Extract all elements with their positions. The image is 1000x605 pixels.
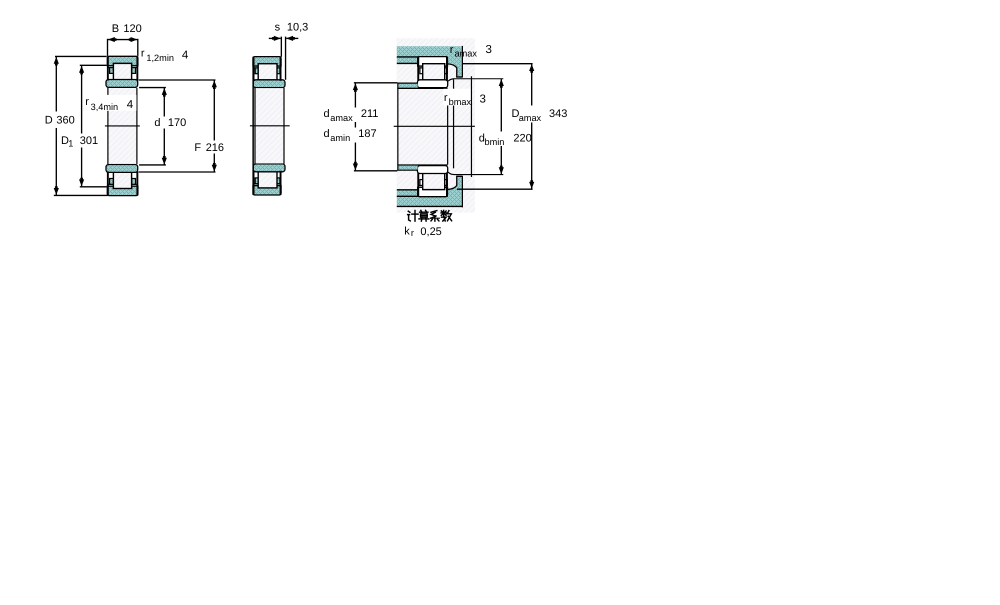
middle-view roller (upper) [258,64,277,80]
dimension s 10,3 [269,21,309,79]
middle-view cage bar left (lower) [255,178,258,184]
label r_amax with value 3 [450,44,492,59]
left-view outer ring band (lower) [107,186,138,195]
svg-text:170: 170 [168,117,186,129]
left-view cage bar left (lower) [110,179,114,185]
mounting-view outer ring band (upper) [418,57,448,66]
svg-text:D: D [45,115,53,127]
svg-text:amin: amin [330,133,350,143]
shaft end face [447,106,449,165]
left-view side face lines (upper) [107,56,109,80]
left-view outer ring band (upper) [107,56,138,65]
middle-view inner ring band (lower) [253,164,285,172]
mounting view centerline [394,125,475,127]
dimension d_bmin 220 [479,79,532,174]
svg-text:216: 216 [206,142,224,154]
svg-text:3: 3 [480,94,486,106]
svg-text:0,25: 0,25 [420,226,441,238]
mounting-view flange gap lines (lower) [418,186,423,188]
middle-view flange gap lines (upper) [254,65,259,67]
mounting-view cage bar right (lower) [445,180,448,186]
svg-text:k: k [404,226,410,238]
left-view flange gap lines (lower) [108,185,113,187]
left-view cage bar right (upper) [132,68,136,74]
svg-text:360: 360 [56,115,74,127]
svg-text:301: 301 [80,135,98,147]
dimension B 120 [108,23,142,56]
svg-text:s: s [275,21,281,33]
shaft seat lines [397,87,447,89]
left-view flange gap lines (upper) [108,65,113,67]
svg-text:4: 4 [127,99,134,111]
svg-text:d: d [324,128,330,140]
mounting view bearing [417,57,447,197]
svg-text:10,3: 10,3 [287,22,308,34]
svg-text:B: B [112,23,119,35]
left-view inner ring band (lower) [106,165,138,173]
mounting-view cage bar left (upper) [420,68,423,74]
svg-text:F: F [194,142,201,154]
middle view outer-edge silhouette line [252,57,254,195]
label r_bmax with value 3 [443,89,486,107]
svg-text:1,2min: 1,2min [146,53,174,63]
left-view roller (lower) [113,172,131,188]
housing bottom [397,176,463,207]
svg-text:3,4min: 3,4min [91,102,119,112]
mounting-view side face lines (upper) [417,57,419,81]
svg-text:r: r [85,96,89,108]
middle view bore column [256,88,284,163]
housing top [397,46,463,77]
left-view inner ring band (upper) [106,80,138,88]
dimension D 360 [45,56,108,195]
svg-text:bmax: bmax [449,97,472,107]
middle-view side face lines (upper) [253,57,255,81]
svg-text:amax: amax [519,113,542,123]
shaft shoulder strips [397,83,447,171]
left-view side face lines (lower) [107,171,109,195]
middle-view cage bar right (lower) [277,178,280,184]
svg-text:r: r [141,48,145,60]
mounting-view roller (lower) [423,173,445,189]
svg-text:187: 187 [358,128,376,140]
mounting-view cage bar right (upper) [445,68,448,74]
label r1,2min with value 4 [141,48,189,64]
mounting view: hatched background [397,38,475,212]
svg-text:220: 220 [513,133,531,145]
svg-text:amax: amax [330,113,353,123]
mounting-view roller (upper) [423,64,445,80]
mounting-view outer ring band (lower) [418,187,448,196]
middle-view cage bar right (upper) [277,68,280,74]
shaft left edge [397,83,399,171]
svg-text:bmin: bmin [485,137,505,147]
dimension d 170 [139,88,186,165]
svg-text:d: d [154,117,160,129]
svg-text:211: 211 [361,108,379,120]
dimension F 216 [139,80,224,172]
mounting-view inner ring band (upper) [417,80,447,88]
mounting-view side face lines (lower) [417,173,419,197]
svg-text:amax: amax [455,48,478,58]
dimension D_amax 343 [457,64,567,190]
left-view cage bar right (lower) [132,179,136,185]
abutment ring [448,76,503,177]
middle-view side face lines (lower) [253,171,255,195]
left view: bearing cross-section [84,56,140,195]
svg-text:r: r [444,92,448,104]
middle view: bearing side section [250,57,290,195]
mounting-view cage bar left (lower) [420,180,423,186]
svg-text:343: 343 [549,108,567,120]
svg-text:3: 3 [486,44,492,56]
caption 计算系数 (hand-drawn CJK strokes) [408,210,452,221]
svg-text:r: r [411,228,414,238]
left-view roller (upper) [113,63,131,79]
svg-text:r: r [450,44,454,56]
middle-view flange gap lines (lower) [254,185,259,187]
middle-view cage bar left (upper) [255,68,258,74]
left view centerline [105,125,140,127]
left view bore column [108,88,136,164]
svg-text:d: d [324,108,330,120]
mounting-view flange gap lines (upper) [418,65,423,67]
mounting-view inner ring band (lower) [417,166,447,174]
dimension d_amax 211 / d_amin 187 [324,83,398,171]
middle view centerline [250,125,290,127]
label r3,4min with value 4 [84,95,137,111]
svg-text:120: 120 [123,23,141,35]
middle-view outer ring band (lower) [253,186,281,195]
caption k_r 0,25 [404,226,442,239]
dimension D1 301 [61,65,107,186]
left-view cage bar left (upper) [110,68,114,74]
middle-view inner ring band (upper) [253,80,285,88]
middle-view roller (lower) [258,172,277,188]
svg-text:4: 4 [182,50,189,62]
middle-view outer ring band (upper) [253,57,281,66]
svg-text:1: 1 [68,139,73,149]
